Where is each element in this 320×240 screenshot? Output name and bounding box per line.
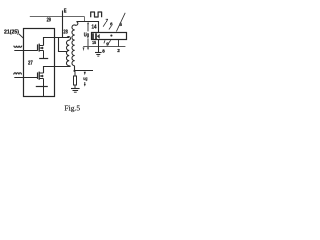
capacitor plate 1	[92, 33, 94, 39]
transistor M1 drain stub	[39, 45, 43, 47]
rail end arrow	[83, 47, 85, 51]
transformer secondary winding (right)	[72, 22, 78, 66]
svg-text:14: 14	[92, 24, 97, 30]
transistor M1 source stub	[39, 50, 43, 52]
transistor M2 channel bar	[38, 72, 40, 80]
wire M1 source	[43, 51, 45, 59]
half-bridge midpoint wire	[44, 67, 71, 74]
square wave symbol	[91, 12, 102, 17]
current arrow ig	[84, 72, 86, 76]
voltage arrow Ug (up)	[87, 22, 89, 25]
transistor M1 channel bar	[38, 44, 40, 52]
svg-text:8: 8	[102, 49, 105, 54]
transistor M2 source stub	[39, 78, 43, 80]
measuring box	[92, 33, 127, 40]
leader 7	[103, 22, 106, 27]
transistor M1 arrow	[40, 47, 43, 50]
voltage arrow Ug (down)	[87, 38, 89, 47]
transistor M1 body stub	[39, 47, 43, 49]
dot in box	[110, 35, 112, 37]
transistor M2 gate bar	[37, 72, 39, 79]
wire shunt node	[75, 70, 93, 72]
M1 source bar	[39, 58, 48, 60]
transistor M2 arrow	[40, 75, 43, 78]
svg-text:27: 27	[28, 61, 33, 67]
gate drive waveform symbol (top)	[14, 46, 22, 48]
diode triangle	[97, 34, 100, 39]
resistor R	[74, 76, 77, 85]
supply line E	[62, 11, 64, 38]
ground below box	[98, 40, 100, 53]
control box 21(25)	[24, 29, 55, 97]
svg-text:9: 9	[106, 42, 109, 47]
svg-text:29: 29	[47, 17, 51, 23]
wire M2 source bar to box bottom	[43, 87, 45, 97]
svg-text:E: E	[64, 8, 67, 14]
resistor bottom lead	[74, 85, 76, 88]
svg-text:ug: ug	[83, 76, 88, 81]
svg-text:Fig.5: Fig.5	[64, 104, 80, 112]
wire secondary bottom to node	[74, 66, 76, 71]
transistor M2 drain stub	[39, 72, 43, 74]
capacitor plate 2	[95, 33, 97, 39]
transistor M1 gate bar	[37, 44, 39, 51]
svg-text:15: 15	[92, 40, 96, 45]
junction dot	[73, 70, 75, 72]
leader 5	[116, 13, 125, 32]
wire from top feed down to secondary rail	[84, 17, 86, 22]
transformer primary winding (left)	[66, 37, 70, 66]
wire 29 (top feed wire)	[30, 16, 85, 18]
voltage arrow ug	[84, 82, 86, 84]
leader 2	[118, 40, 120, 47]
secondary top rail	[76, 22, 98, 33]
transistor M2 body stub	[39, 75, 43, 77]
svg-text:2: 2	[117, 48, 120, 53]
wire M1 drain to node E	[44, 38, 70, 46]
ground (left)	[71, 88, 80, 90]
resistor top lead	[74, 72, 76, 76]
leader 21(25)	[19, 34, 24, 38]
reference rail (gray)	[83, 46, 125, 48]
M2 source bar	[36, 86, 48, 88]
leader 9	[108, 40, 110, 44]
leader 6	[109, 26, 112, 30]
leader 3	[104, 40, 105, 43]
svg-text:28: 28	[63, 29, 67, 35]
svg-text:21(25): 21(25)	[4, 30, 19, 36]
primary centre-tap wire	[59, 38, 67, 52]
gate drive waveform symbol (bottom)	[14, 73, 22, 75]
svg-text:Ug: Ug	[84, 33, 89, 39]
wire to M1 gate	[14, 50, 37, 52]
primary bottom hook	[69, 65, 70, 68]
wire M2 source	[43, 79, 45, 87]
wire to M2 gate	[14, 77, 37, 79]
